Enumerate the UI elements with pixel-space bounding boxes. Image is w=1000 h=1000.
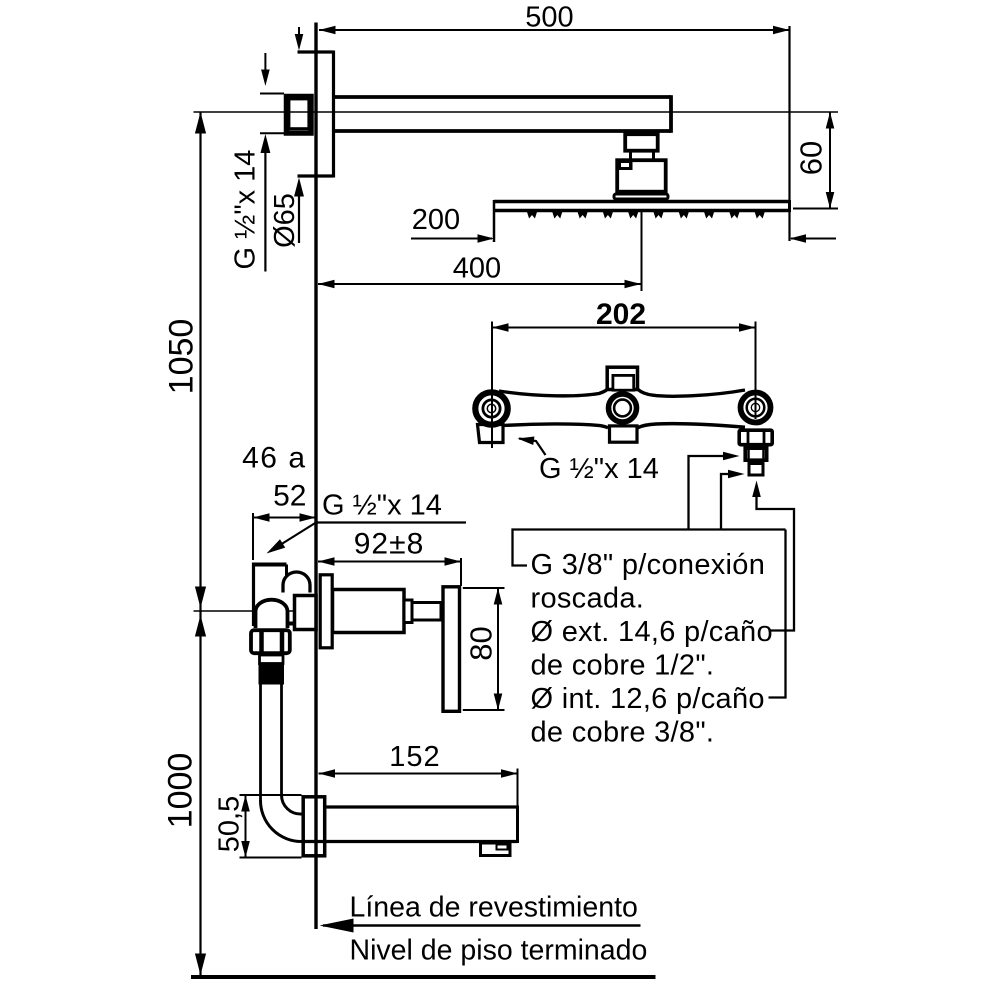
valve upper dome: [283, 572, 310, 593]
wall escutcheon plate: [320, 575, 332, 648]
head centerline extension: [641, 212, 643, 291]
dimension 202 extension right: [755, 322, 757, 420]
head connector base: [614, 194, 668, 199]
svg-text:de cobre 1/2".: de cobre 1/2".: [531, 650, 715, 682]
wall flange: [298, 51, 334, 178]
arm union square: [260, 94, 311, 134]
mixer left inlet: [478, 425, 504, 443]
svg-text:de cobre 3/8".: de cobre 3/8".: [531, 717, 715, 749]
svg-text:Ø int. 12,6 p/caño: Ø int. 12,6 p/caño: [531, 683, 765, 715]
floor line: [191, 975, 656, 979]
supply pipe: [261, 685, 282, 802]
shower arm: [334, 95, 672, 133]
mixer bottom outlet: [610, 426, 638, 442]
svg-text:200: 200: [412, 204, 460, 236]
dimension 200 right arrow: [790, 234, 837, 243]
svg-text:Nivel de piso terminado: Nivel de piso terminado: [350, 935, 648, 967]
mixer right connector nut: [739, 430, 772, 446]
svg-text:1050: 1050: [163, 319, 201, 395]
dimension 60: [793, 112, 838, 209]
label nivel de piso terminado: [350, 935, 648, 967]
pipe elbow: [260, 795, 301, 842]
valve body block: [252, 563, 293, 627]
leader B o-ext: [752, 481, 794, 631]
valve black band: [259, 664, 285, 685]
label G 1/2 x 14 mixer: [539, 453, 659, 485]
svg-text:G ½"x 14: G ½"x 14: [230, 150, 262, 270]
mixer center port: [609, 394, 637, 422]
svg-text:Línea de revestimiento: Línea de revestimiento: [350, 892, 638, 924]
label G 1/2 x 14 valve: [264, 490, 466, 558]
dimension 202: [492, 298, 756, 332]
svg-text:60: 60: [794, 141, 829, 175]
left dimension line 1050/1000: [195, 112, 206, 975]
dimension 202 extension left: [491, 322, 493, 449]
svg-text:400: 400: [453, 253, 501, 285]
dimension 50,5: [214, 795, 302, 858]
svg-text:G ½"x 14: G ½"x 14: [322, 490, 442, 522]
label linea de revestimiento: [320, 892, 641, 933]
head connector block 1: [625, 134, 658, 151]
leader G 1/2 x 14 mixer: [517, 434, 546, 455]
mixer right port: [741, 393, 771, 423]
handle plate: [443, 587, 460, 712]
dimension 500: [319, 2, 790, 35]
svg-text:G ½"x 14: G ½"x 14: [539, 453, 659, 485]
dimension 400: [318, 253, 641, 289]
cartridge body: [333, 590, 405, 633]
svg-text:152: 152: [389, 741, 440, 773]
svg-text:92±8: 92±8: [354, 528, 425, 561]
shower head plate: [494, 200, 790, 242]
svg-text:Ø ext. 14,6 p/caño: Ø ext. 14,6 p/caño: [531, 616, 773, 648]
dimension 80: [463, 588, 505, 710]
mixer right connector middle: [745, 448, 767, 461]
svg-text:46 a: 46 a: [242, 442, 306, 475]
valve through stem: [295, 596, 317, 630]
svg-text:52: 52: [273, 480, 306, 513]
svg-text:G 3/8" p/conexión: G 3/8" p/conexión: [531, 549, 766, 581]
dimension 200 left: [411, 204, 494, 243]
mixer left port: [475, 392, 507, 424]
svg-text:roscada.: roscada.: [531, 583, 645, 615]
spout tube: [302, 806, 518, 844]
dimension o65 arrows: [294, 27, 304, 243]
mixer top port boss: [607, 367, 637, 390]
head connector neck: [631, 153, 654, 160]
dimension 92+-8: [318, 528, 461, 587]
svg-text:1000: 1000: [162, 753, 200, 829]
mixer body bar: [496, 389, 747, 428]
label 1000 (rotated): [162, 753, 200, 829]
valve neck below nut: [260, 655, 284, 664]
svg-text:Ø65: Ø65: [269, 193, 301, 248]
valve nut: [251, 630, 290, 655]
dimension G1/2 arrows: [260, 53, 270, 272]
leader C o-int: [721, 470, 786, 698]
cartridge stem: [412, 603, 441, 621]
spray nozzles: [527, 212, 765, 219]
dimension 46 a 52: [242, 442, 316, 561]
svg-text:500: 500: [525, 2, 573, 34]
extension line head right: [788, 26, 790, 241]
label 1050 (rotated): [163, 319, 201, 395]
wall line: [314, 23, 317, 930]
svg-text:50,5: 50,5: [214, 796, 246, 852]
text block G 3/8: [531, 549, 773, 749]
mixer right connector tip: [749, 464, 763, 476]
spout wall plate: [303, 797, 325, 856]
arm centerline reference: [194, 111, 839, 113]
head connector block 2: [616, 159, 666, 192]
dimension 152: [319, 741, 518, 806]
cartridge step: [404, 600, 412, 623]
valve lower dome: [256, 600, 288, 628]
svg-text:80: 80: [464, 626, 499, 660]
spout aerator: [481, 843, 511, 856]
leader A G3/8: [513, 452, 786, 566]
label G 1/2 x 14 (rotated): [230, 150, 262, 270]
label o65 (rotated): [269, 193, 301, 248]
svg-text:202: 202: [596, 298, 646, 331]
mid centerline reference: [194, 610, 317, 612]
